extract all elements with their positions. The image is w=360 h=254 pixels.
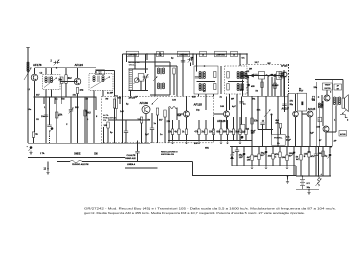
resistor R5 xyxy=(113,99,115,108)
wire lower right rail xyxy=(230,145,332,147)
svg-text:B: B xyxy=(304,156,306,158)
wire R3 bottom xyxy=(65,83,67,97)
oscillator transformer L2 xyxy=(157,68,164,74)
wire out col down b xyxy=(322,146,324,176)
svg-text:5p: 5p xyxy=(126,104,129,106)
wire bottom rail left xyxy=(28,142,150,144)
resistor IFT3 aux 1 xyxy=(214,72,216,78)
wire bias row 9 top xyxy=(233,117,235,129)
wire det col g xyxy=(284,77,286,96)
svg-text:1k: 1k xyxy=(262,120,265,122)
svg-text:AP: AP xyxy=(334,140,338,143)
wire stub 8 xyxy=(103,127,105,143)
wire speaker return hook xyxy=(340,115,347,118)
resistor lower wall 3 xyxy=(251,155,253,161)
wire node12 drop xyxy=(47,162,49,171)
wire IFT1 to T2 base xyxy=(60,81,78,83)
arrow ground mid 6 xyxy=(226,141,228,144)
wire det drop 284 xyxy=(284,96,286,112)
wire IFT3 drop b xyxy=(205,94,207,110)
wire right border xyxy=(331,80,333,147)
svg-text:2a: 2a xyxy=(202,54,204,56)
arrow ground mid 5 xyxy=(185,141,187,144)
wire lower wall 12 bottom xyxy=(315,156,317,176)
wire FM inner link xyxy=(116,119,146,121)
wire rail to IFT2 xyxy=(96,70,115,72)
svg-text:AF126: AF126 xyxy=(217,119,226,123)
svg-text:FM: FM xyxy=(103,120,106,122)
wire IFT4 drop b xyxy=(236,94,238,141)
antenna coil L1 xyxy=(24,62,32,80)
svg-text:33: 33 xyxy=(308,152,311,154)
wire bias row 6 top xyxy=(213,117,215,129)
svg-text:25µ: 25µ xyxy=(314,87,318,89)
wire IFT1 secondary bottom xyxy=(51,90,53,98)
electrolytic lower wall 5 xyxy=(264,151,268,156)
wire C5 down xyxy=(151,130,153,143)
coil L6 det xyxy=(266,75,272,77)
wire spk top xyxy=(342,90,344,98)
wire bias row 6 bottom xyxy=(213,135,215,141)
transistor T2 AF124 xyxy=(74,78,81,85)
svg-text:560: 560 xyxy=(223,132,228,134)
svg-text:8: 8 xyxy=(96,116,98,118)
wire bias row 9 bottom xyxy=(233,135,235,141)
wire mid bottom rail xyxy=(168,140,252,142)
label box TRASF 2 xyxy=(334,84,342,90)
capacitor IFT3 c xyxy=(195,77,199,78)
svg-text:10k: 10k xyxy=(168,132,173,134)
wire gang drop 2 xyxy=(146,54,148,60)
svg-text:AF178: AF178 xyxy=(33,63,42,67)
svg-text:AC125: AC125 xyxy=(308,107,316,111)
wire linea step xyxy=(193,162,297,176)
capacitor C5 xyxy=(150,128,154,129)
wire stub 10 xyxy=(271,77,273,96)
wire det col f xyxy=(280,80,282,97)
wire lower wall 12 top xyxy=(315,146,317,154)
resistor bias row 6 xyxy=(212,129,214,135)
resistor R6 xyxy=(173,68,175,74)
svg-text:5p: 5p xyxy=(110,132,113,134)
wire between boxes xyxy=(220,66,222,94)
svg-text:LINEA A: LINEA A xyxy=(127,163,136,166)
wire AGC drop xyxy=(271,115,273,135)
electrolytic C3 xyxy=(29,146,33,151)
resistor bias row 3 xyxy=(185,129,187,135)
wire bias row 1 top xyxy=(172,120,174,129)
wire T4 collector xyxy=(186,96,188,111)
wire preamp base xyxy=(287,94,289,147)
svg-text:AC: AC xyxy=(296,158,300,161)
wire lower wall 6 top xyxy=(272,146,274,153)
node det j1 xyxy=(247,75,249,77)
wire R7 bottom xyxy=(115,109,117,121)
node IFT3 top b xyxy=(204,65,206,67)
arrow osc coil xyxy=(153,77,158,82)
wire IFT4 mid link xyxy=(228,80,244,82)
svg-text:MF: MF xyxy=(231,99,235,101)
wire lower wall 6 bottom xyxy=(272,159,274,166)
arrow T3 input xyxy=(152,98,159,105)
transistor T4 AF125 xyxy=(184,111,190,117)
resistor R9 xyxy=(140,117,142,123)
svg-text:10µ: 10µ xyxy=(307,187,311,189)
svg-text:D2: D2 xyxy=(247,71,251,73)
svg-text:47k: 47k xyxy=(194,131,199,134)
wire lower wall 11 top xyxy=(308,146,310,151)
wire det col a2 xyxy=(241,96,243,124)
node 12 junction xyxy=(47,168,49,170)
wire bias row 5 bottom xyxy=(205,135,207,141)
svg-text:KC: KC xyxy=(203,91,207,93)
wire IFT3 in xyxy=(196,66,198,72)
IFT4 upper transformer xyxy=(237,72,243,80)
resistor lower wall 10 xyxy=(300,155,302,161)
wire lower wall 4 bottom xyxy=(258,160,260,166)
svg-text:10n: 10n xyxy=(229,132,234,134)
wire T6b emitter xyxy=(295,117,297,147)
wire detector main xyxy=(241,75,284,77)
wire T2 collector xyxy=(77,68,79,79)
switch S1 wiper xyxy=(70,160,82,163)
wire bias row 8 top xyxy=(227,120,229,129)
wire out top xyxy=(315,79,343,81)
wire lower wall 14 bottom xyxy=(329,157,331,176)
svg-text:REGOLATORE DI: REGOLATORE DI xyxy=(161,151,178,154)
resistor R22 xyxy=(274,83,276,89)
node tuning rail junction 4 xyxy=(192,53,194,55)
svg-text:100: 100 xyxy=(317,127,321,129)
wire IFT2 pri bottom xyxy=(93,90,95,143)
svg-text:POT: POT xyxy=(299,90,304,92)
svg-text:2k2: 2k2 xyxy=(268,156,272,158)
node battery junction xyxy=(287,175,289,177)
wire long v 85 xyxy=(84,97,86,143)
svg-text:150: 150 xyxy=(209,132,214,134)
wire battery rail xyxy=(296,175,331,177)
wire lower wall 1 bottom xyxy=(236,152,238,166)
node tuning rail junction 5 xyxy=(239,53,241,55)
svg-text:C30: C30 xyxy=(172,100,177,102)
capacitor C15 xyxy=(44,115,48,116)
resistor bias row 10 xyxy=(239,129,241,135)
svg-text:4k7: 4k7 xyxy=(36,94,40,97)
wire IFT2 sec bottom xyxy=(102,90,104,96)
resistor IFT4 aux 2 xyxy=(227,84,229,91)
svg-text:COMPENSO: COMPENSO xyxy=(128,55,138,57)
resistor R13 xyxy=(84,110,86,116)
wire bias row 7 bottom xyxy=(220,135,222,141)
wire lower wall 10 bottom xyxy=(300,160,302,176)
FM front-end dashed box xyxy=(102,96,214,143)
svg-text:CHIUSO ALE FM: CHIUSO ALE FM xyxy=(72,163,89,166)
resistor R osc tall hatched xyxy=(129,69,132,90)
wire C13 drop xyxy=(262,125,264,147)
svg-text:5µF: 5µF xyxy=(310,133,314,135)
oscillator transformer L3 xyxy=(157,83,164,89)
wire gnd4 drop xyxy=(308,189,310,190)
resistor R4 xyxy=(76,88,78,94)
wire lower wall 9 bottom xyxy=(293,154,295,175)
IF transformer IFT4 box xyxy=(225,66,248,94)
ground G3 xyxy=(286,180,289,184)
wire lower wall 2 top xyxy=(243,146,245,152)
electrolytic C14 xyxy=(240,136,244,141)
svg-text:12V: 12V xyxy=(251,133,255,135)
pot arrow AGC xyxy=(264,110,271,118)
wire pot bottom xyxy=(301,111,303,146)
resistor lower wall 7 xyxy=(279,152,281,158)
wire det col c xyxy=(261,79,263,96)
wire lower wall 14 top xyxy=(329,146,331,153)
svg-text:COMPENSO: COMPENSO xyxy=(179,55,189,57)
svg-text:10µ: 10µ xyxy=(196,110,200,112)
svg-text:USCITA: USCITA xyxy=(324,87,331,90)
svg-text:4k7: 4k7 xyxy=(159,119,163,122)
resistor bias row 4 xyxy=(198,129,200,135)
electrolytic C22 xyxy=(50,127,54,132)
wire battery bottom xyxy=(296,188,319,190)
svg-text:47k: 47k xyxy=(290,100,294,103)
svg-text:0M1: 0M1 xyxy=(205,148,210,150)
svg-text:1n: 1n xyxy=(243,104,246,106)
wire agc link xyxy=(125,167,158,169)
arrow C2 trimmer xyxy=(69,108,74,114)
wire antenna top tick xyxy=(26,46,30,48)
diode D1 xyxy=(250,74,254,78)
node var-cap junction xyxy=(56,67,58,69)
wire gang drop 4 xyxy=(246,54,248,65)
wire antenna lead xyxy=(27,47,29,143)
wire bias row 11 top xyxy=(245,117,247,129)
ground G4 xyxy=(307,191,310,195)
wire T9 drop xyxy=(325,132,327,146)
svg-text:3a: 3a xyxy=(220,97,223,99)
wire C20 down xyxy=(137,153,139,162)
svg-text:1k2: 1k2 xyxy=(246,129,250,131)
wire stub 2 xyxy=(54,97,56,104)
svg-text:AF125: AF125 xyxy=(194,103,203,107)
switch S2 coil xyxy=(318,177,320,186)
svg-text:8k2: 8k2 xyxy=(68,78,73,80)
arrow ground lw 2 xyxy=(286,166,288,169)
svg-text:C8: C8 xyxy=(36,119,40,121)
wire lower wall 7 bottom xyxy=(279,158,281,166)
node out junction xyxy=(318,96,320,98)
wire bias row 8 bottom xyxy=(227,135,229,141)
wire T1 collector xyxy=(34,68,36,75)
arrow ground mid 3 xyxy=(239,141,241,144)
electrolytic lower wall 14 xyxy=(328,154,332,159)
wire C2 up xyxy=(70,97,72,110)
svg-text:1 TA: 1 TA xyxy=(40,152,45,155)
wire switch line 2a xyxy=(57,161,70,163)
wire L4 left xyxy=(168,108,170,143)
wire osc drop1 xyxy=(134,54,136,69)
wire bias row 4 bottom xyxy=(198,135,200,141)
capacitor C10 series xyxy=(254,74,258,76)
wire bias row 3 top xyxy=(186,117,188,129)
svg-text:455: 455 xyxy=(251,85,255,88)
wire switch top xyxy=(318,146,320,176)
wire C20 up xyxy=(137,141,139,152)
capacitor C12 xyxy=(239,102,243,103)
wire det col e xyxy=(274,77,276,96)
svg-text:3k3: 3k3 xyxy=(87,113,92,115)
wire bias row 3 bottom xyxy=(186,135,188,141)
wire bias row 4 top xyxy=(198,120,200,129)
resistor lower wall 11 xyxy=(308,152,310,158)
wire IFT3 drop a xyxy=(198,94,200,96)
wire riser x183 xyxy=(182,54,184,96)
wire R1 to rail xyxy=(33,137,35,143)
svg-text:GR/27242 - Mod. Record Boy (45: GR/27242 - Mod. Record Boy (45) e i Tran… xyxy=(84,207,336,211)
svg-text:86k: 86k xyxy=(257,109,261,111)
volume potentiometer box xyxy=(272,134,286,145)
label box COMPENSO OM 3 xyxy=(215,51,227,57)
resistor bias row 11 xyxy=(245,129,247,135)
resistor bias row 2 xyxy=(178,129,180,135)
wire IFT3 mid link xyxy=(197,80,215,82)
svg-text:ONDE: ONDE xyxy=(74,154,81,156)
wire T5 base link xyxy=(214,113,224,115)
wire lower wall 4 top xyxy=(258,146,260,154)
detector tank box xyxy=(259,72,265,80)
svg-text:1k: 1k xyxy=(182,132,185,134)
diode D3 AM det xyxy=(230,155,234,159)
wire push-pull link xyxy=(322,101,324,126)
wire C21 top xyxy=(49,97,51,125)
svg-text:100: 100 xyxy=(104,125,108,127)
svg-text:2k2: 2k2 xyxy=(75,107,79,109)
svg-text:8p2: 8p2 xyxy=(178,115,182,117)
wire det dashed right xyxy=(288,64,290,94)
svg-text:C: C xyxy=(275,156,277,158)
ground G1 xyxy=(29,151,32,155)
wire gang1 top xyxy=(145,54,147,73)
wire det col d xyxy=(267,77,269,97)
speaker SP1 xyxy=(342,95,348,112)
wire lower wall 8 top xyxy=(286,146,288,155)
resistor IFT3 aux 2 xyxy=(214,84,216,90)
wire lower wall 3 bottom xyxy=(251,161,253,166)
detector box small xyxy=(279,72,284,78)
capacitor C6 xyxy=(124,131,128,132)
wire T4 base link xyxy=(177,113,184,115)
svg-text:25µ: 25µ xyxy=(290,104,294,106)
wire lower wall 9 top xyxy=(293,146,295,151)
wire stub 6 xyxy=(95,96,97,110)
wire lower link rail xyxy=(232,165,296,167)
capacitor C13 xyxy=(260,123,264,124)
node IFT2 top junction xyxy=(95,71,97,73)
wire lower wall 5 top xyxy=(265,146,267,150)
svg-text:OSCILL.: OSCILL. xyxy=(129,64,137,66)
svg-text:L1: L1 xyxy=(28,89,31,91)
node switch junction xyxy=(318,175,320,177)
wire T5 collector xyxy=(226,96,228,111)
wire audio rail drop xyxy=(246,54,248,65)
wire lower wall 13 bottom xyxy=(322,157,324,176)
svg-text:1n: 1n xyxy=(154,123,157,125)
transistor T1 AF178 xyxy=(31,74,38,81)
variable capacitor C1 xyxy=(54,60,60,66)
wire lower wall 10 top xyxy=(300,146,302,154)
wire batt bot drop xyxy=(302,188,304,190)
node battery junction b xyxy=(302,175,304,177)
capacitor C20 CH.ALTE xyxy=(135,152,139,153)
svg-text:470: 470 xyxy=(80,89,85,92)
arrow ground lw 1 xyxy=(251,166,253,169)
IF transformer IFT2 455kc xyxy=(89,74,113,91)
label box TRASF 1 xyxy=(323,83,333,90)
wire stub 9 xyxy=(283,70,285,96)
svg-text:1k: 1k xyxy=(35,134,38,136)
wire det col b xyxy=(247,76,249,97)
svg-text:SINTONIA FM: SINTONIA FM xyxy=(161,153,174,156)
resistor R21 xyxy=(261,82,263,88)
wire lower wall 7 top xyxy=(279,146,281,152)
wire bias row 11 bottom xyxy=(245,135,247,141)
svg-text:COMPENSO: COMPENSO xyxy=(216,55,226,57)
capacitor lower wall 12 xyxy=(314,154,318,155)
coil L4 FM xyxy=(169,106,178,108)
svg-text:+: + xyxy=(27,146,29,148)
resistor R3 xyxy=(65,75,67,84)
svg-text:C2: C2 xyxy=(40,73,44,75)
svg-text:gen=2. Media frequenza AM a 45: gen=2. Media frequenza AM a 455 kc/s. Me… xyxy=(84,211,305,215)
wire stub 3 xyxy=(61,97,63,104)
node tuning rail junction 1 xyxy=(134,53,136,55)
wire IFT1 secondary top xyxy=(51,68,53,75)
wire TR1 right top xyxy=(321,95,323,103)
svg-text:5µ: 5µ xyxy=(325,156,328,158)
wire osc coil left xyxy=(154,62,156,95)
resistor R24 xyxy=(251,118,253,124)
wire det link drop xyxy=(257,96,259,129)
svg-text:OSAR ALE: OSAR ALE xyxy=(125,157,136,160)
resistor bias row 9 xyxy=(232,129,234,135)
svg-text:AP: AP xyxy=(337,84,340,87)
wire IFT3 top in xyxy=(196,54,198,66)
resistor bias row 1 xyxy=(171,129,173,135)
trimmer box 1 xyxy=(157,51,164,57)
svg-text:MC: MC xyxy=(268,63,272,65)
capacitor C21 xyxy=(47,125,51,126)
wire T7 base link xyxy=(302,113,307,115)
svg-text:2p: 2p xyxy=(171,58,174,60)
resistor bias row 7 xyxy=(220,129,222,135)
trimmer box 3 xyxy=(231,51,238,56)
wire right riser xyxy=(114,71,116,97)
wire varcap drop xyxy=(145,79,147,91)
svg-text:455: 455 xyxy=(192,96,196,99)
wire gang drop 3 xyxy=(192,54,194,65)
capacitor C2 xyxy=(69,110,73,111)
svg-text:270: 270 xyxy=(167,121,171,123)
capacitor lower wall 1 xyxy=(235,150,239,151)
transistor T3 AF139 xyxy=(142,106,150,114)
wire T7 emitter xyxy=(309,117,311,146)
svg-text:+: + xyxy=(321,174,323,176)
wire stub 5 xyxy=(86,97,88,143)
svg-text:OC: OC xyxy=(242,58,246,60)
wire bias row 1 bottom xyxy=(172,135,174,141)
svg-text:1W: 1W xyxy=(247,159,251,161)
arrow ground mid 4 xyxy=(171,141,173,144)
svg-text:12: 12 xyxy=(44,169,47,171)
